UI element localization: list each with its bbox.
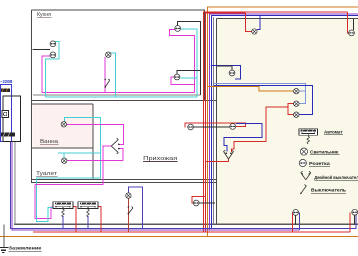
socket S10 bottom right 1 — [293, 210, 299, 216]
socket S6 big room left upper — [229, 70, 235, 76]
wire red drop to socket S5 — [348, 12, 349, 33]
svg-text:Светильник: Светильник — [310, 149, 339, 154]
wire socket K3 dark loop — [178, 22, 201, 95]
wire red lamp feed — [232, 107, 289, 152]
wire cyan bath collector — [36, 118, 100, 179]
svg-text:~220В: ~220В — [0, 79, 12, 84]
wire bathroom top wall — [32, 103, 94, 105]
wire kitchen bottom wall — [32, 99, 217, 101]
wire red top run — [204, 12, 348, 232]
wire red riser socket S7 — [292, 212, 294, 231]
node panel input hatched bar — [1, 89, 10, 93]
breaker legend symbol — [299, 129, 317, 144]
wire black feed to sockets — [33, 48, 51, 50]
wire red hallway switch drop — [127, 198, 129, 231]
ground — [0, 224, 9, 252]
socket S2 kitchen left lower — [50, 52, 56, 58]
wire dark socket S3 stub — [217, 66, 232, 70]
lamp E8 hallway — [126, 193, 131, 198]
wire red riser socket S8 — [349, 212, 351, 231]
wire socket K3 magenta loop — [169, 30, 194, 93]
wire bath-toilet divider wall — [32, 147, 94, 149]
svg-text:Автомат: Автомат — [324, 129, 343, 134]
wire bottom red run — [33, 231, 350, 233]
socket S3 kitchen right upper — [175, 26, 181, 32]
wire panel black box — [3, 96, 21, 142]
wire magenta switch feed — [35, 146, 111, 184]
wire kitchen cyan run — [46, 96, 198, 98]
socket S7 hallway wall — [188, 124, 194, 130]
socket legend symbol — [299, 159, 306, 166]
wire dark drop socket S7 — [295, 215, 297, 224]
socket S11 bottom right 2 — [352, 209, 358, 215]
switch SA4 double big room — [224, 150, 234, 159]
socket S5 big room top right — [349, 30, 355, 36]
wire magenta toilet lamp to switch — [67, 149, 123, 161]
node legend label ground — [9, 246, 42, 252]
wire bottom gray run — [14, 142, 16, 225]
wire dark socket link — [194, 126, 230, 128]
wire bathroom right wall — [92, 104, 94, 180]
wire red breaker QF2 output — [96, 207, 102, 232]
wire purple top run — [210, 14, 358, 230]
wire kitchen magenta run — [42, 91, 194, 93]
wire bottom blue run — [10, 142, 356, 229]
wire socket K4 magenta loop — [171, 77, 194, 85]
wire dark socket S6 stub — [199, 202, 215, 204]
wire red socket S6 loop — [192, 197, 206, 204]
svg-text:Двойной выключатель: Двойной выключатель — [314, 174, 358, 180]
wire socket K4 dark loop — [177, 71, 201, 75]
wire blue hallway lamp loop — [128, 187, 142, 228]
wire pale blue stub lamp L2 — [299, 90, 306, 92]
wire magenta socket loop — [42, 56, 50, 92]
node legend label double switch — [314, 174, 358, 181]
double switch legend symbol — [301, 171, 311, 180]
svg-text:Выключатель: Выключатель — [311, 188, 346, 193]
wire blue drop to lamp L1 — [257, 16, 260, 30]
switch SA1 kitchen — [104, 79, 109, 88]
wire indigo breaker QF2 bottom — [87, 216, 89, 228]
wire blue switch staircase — [224, 124, 262, 152]
lamp E1 kitchen — [106, 52, 111, 57]
wire blue lamp feed — [214, 86, 313, 115]
wire magenta bath lamp to switch — [67, 124, 124, 144]
wire red lamp bracket — [288, 104, 294, 115]
wire bottom orange run — [0, 235, 358, 237]
node panel main breaker bar — [1, 133, 15, 137]
wire orange lamp branch — [208, 87, 294, 91]
wire cyan toilet lamp — [58, 152, 100, 154]
wire apartment bottom outer wall — [32, 181, 217, 183]
wire big room top wall — [216, 18, 358, 20]
wire cyan left riser — [36, 178, 53, 221]
node legend label breaker — [324, 129, 343, 135]
wire kitchen gray run — [33, 94, 201, 96]
node bathroom fill — [33, 105, 93, 148]
wire magenta left riser — [35, 184, 54, 218]
wire blue riser socket S7 — [299, 212, 301, 229]
socket S8 big room left middle — [230, 124, 236, 130]
switch SA3 double hallway — [111, 138, 119, 154]
wire kitchen top wall — [32, 9, 206, 11]
wire socket K3 cyan loop — [181, 29, 198, 97]
wire big room left wall — [215, 19, 217, 225]
wire red switch pivot — [206, 159, 229, 162]
wire red bundle second — [206, 13, 246, 232]
switch legend symbol — [300, 185, 306, 195]
wire blue top run — [212, 16, 358, 229]
node room label hallway — [143, 156, 177, 162]
wire red breaker QF1 output — [71, 207, 76, 232]
lamp E5 big room 3 — [294, 112, 299, 117]
wire red socket pair loop — [185, 123, 245, 128]
breaker QF2 — [78, 202, 98, 217]
wire panel blue box — [1, 85, 12, 142]
wire left outer wall — [31, 10, 33, 183]
wire socket K4 cyan loop — [181, 77, 198, 79]
wire orange top run — [208, 7, 358, 236]
lamp E7 toilet — [61, 158, 66, 163]
svg-text:Заземление: Заземление — [9, 246, 42, 251]
socket S9 hallway bottom — [193, 200, 199, 206]
wire gray bundle — [213, 17, 215, 224]
wire bottom purple run — [12, 142, 300, 231]
lamp E6 bathroom — [61, 122, 66, 127]
switch SA2 hallway — [128, 206, 133, 214]
wire bottom ground wall line — [14, 223, 358, 225]
node legend label switch — [311, 188, 346, 194]
wire kitchen lamp cyan — [111, 53, 116, 97]
wire cyan socket loop — [46, 41, 59, 97]
wire dark drop socket S8 — [354, 215, 356, 224]
lamp E3 big room 1 — [294, 89, 299, 94]
wire dark drop to socket S5 — [353, 19, 355, 30]
wire red drop to lamp L1 — [246, 13, 252, 32]
breaker QF1 — [53, 202, 73, 217]
socket S4 kitchen right lower — [174, 74, 180, 80]
node big-room fill — [217, 19, 358, 225]
node room label toilet — [36, 171, 58, 177]
lamp legend symbol — [300, 148, 307, 155]
lamp E4 big room 2 — [294, 101, 299, 106]
meter M1 — [2, 111, 9, 118]
svg-text:Розетка: Розетка — [309, 161, 330, 166]
node room label bath — [40, 139, 59, 145]
wire kitchen right wall — [204, 10, 206, 101]
lamp E2 big room top — [252, 29, 257, 34]
wire blue socket S3 loop — [212, 66, 241, 79]
wire indigo breaker QF1 bottom — [62, 216, 64, 228]
wire kitchen lamp magenta — [104, 57, 106, 92]
node room label kitchen — [37, 12, 51, 18]
socket S1 kitchen left upper — [50, 41, 56, 47]
wire apartment bottom inner wall — [32, 179, 217, 181]
node legend label lamp — [310, 149, 339, 155]
wire pale blue lamp feed — [214, 83, 306, 103]
node legend label socket — [309, 161, 330, 167]
